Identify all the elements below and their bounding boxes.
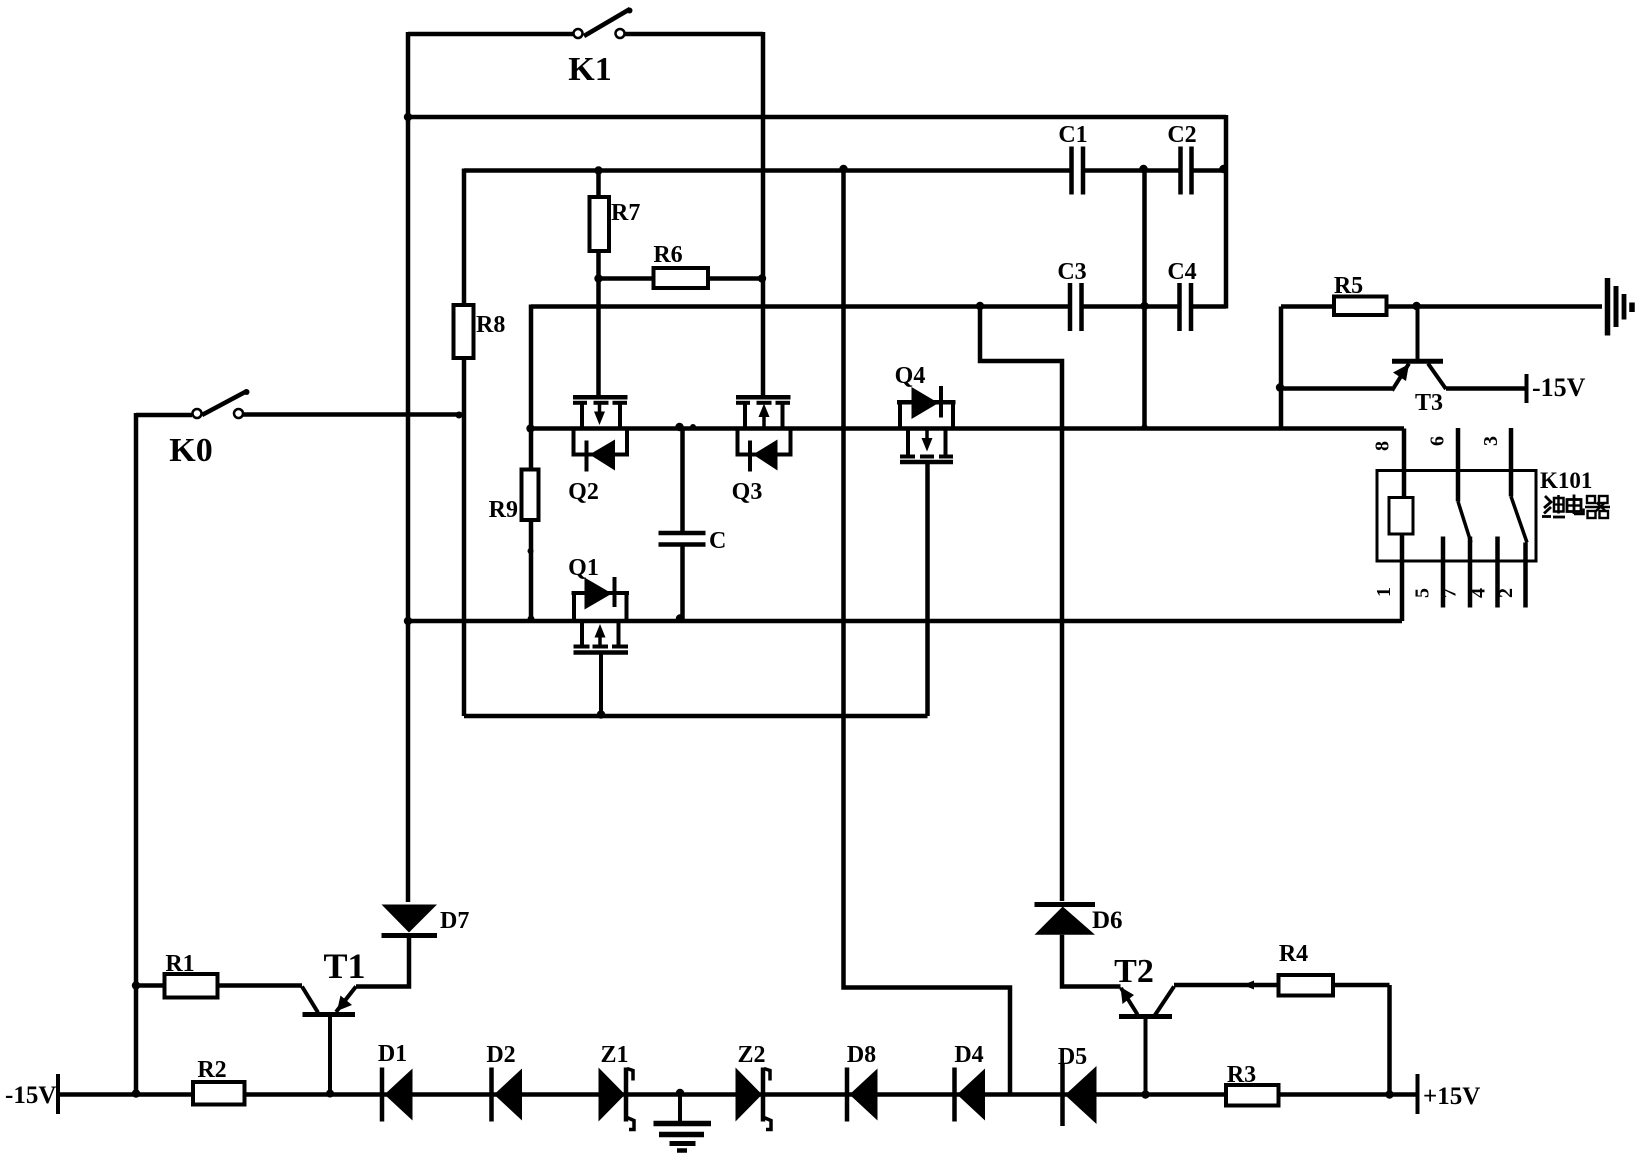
diode D1 <box>382 1068 413 1122</box>
label +15V <box>1423 1083 1480 1110</box>
capacitor C1 <box>1072 147 1084 195</box>
resistor R8 <box>454 169 474 717</box>
node y306 tap junction <box>976 302 984 310</box>
svg-text:5: 5 <box>1412 588 1434 598</box>
resistor R3 <box>1226 1085 1279 1106</box>
svg-text:C1: C1 <box>1058 122 1087 148</box>
transistor T3 <box>1392 304 1446 391</box>
wire bottom of inner box y716 <box>464 714 928 719</box>
svg-text:C: C <box>709 528 726 554</box>
svg-text:1: 1 <box>1373 587 1395 597</box>
switch K1 <box>408 8 763 39</box>
label K101 <box>1540 468 1592 493</box>
svg-text:D2: D2 <box>486 1042 515 1068</box>
label Q2 <box>568 479 599 505</box>
transistor T1 <box>302 987 356 1095</box>
label pin 2 <box>1495 588 1517 598</box>
capacitor C3 <box>1070 283 1082 331</box>
diode D7 <box>382 905 438 936</box>
node R6 right junction <box>758 274 766 282</box>
node T3 emitter junction <box>1276 383 1284 391</box>
svg-text:D1: D1 <box>378 1041 407 1067</box>
label Q4 <box>895 363 926 389</box>
ground right <box>1608 278 1633 336</box>
svg-text:C3: C3 <box>1057 259 1086 285</box>
label -15V left <box>5 1082 56 1109</box>
svg-text:4: 4 <box>1468 588 1490 598</box>
wire left vertical x136 <box>134 413 139 1095</box>
diode D8 <box>847 1068 878 1122</box>
wire horizontal y117 <box>408 115 1226 120</box>
resistor R7 <box>590 171 610 279</box>
svg-text:T1: T1 <box>323 946 365 986</box>
svg-text:Q3: Q3 <box>732 479 763 505</box>
label Q1 <box>568 555 599 581</box>
svg-text:C4: C4 <box>1167 259 1196 285</box>
node x1144 at bus <box>1142 424 1148 430</box>
diode D4 <box>955 1068 986 1122</box>
diode D2 <box>492 1068 523 1122</box>
svg-text:Z1: Z1 <box>600 1042 628 1068</box>
resistor R5 <box>1281 297 1602 316</box>
wire bus to relay pin 8 <box>1402 429 1407 501</box>
label pin 7 <box>1439 588 1461 598</box>
svg-text:K1: K1 <box>568 51 611 88</box>
node Q1 gate at y716 <box>597 710 605 718</box>
svg-text:-15V: -15V <box>5 1082 56 1109</box>
wire horizontal y170 left segment <box>464 168 1072 173</box>
relay pin 1 <box>1400 534 1405 621</box>
wire T3 emitter to x1281 <box>1281 386 1392 391</box>
label D1 <box>378 1041 407 1067</box>
label Z2 <box>737 1042 765 1068</box>
node R9 at lower bus <box>528 616 535 623</box>
label R6 <box>653 242 682 268</box>
label C <box>709 528 726 554</box>
svg-text:6: 6 <box>1427 436 1449 446</box>
label R1 <box>165 951 194 977</box>
mosfet Q2 <box>572 397 630 471</box>
label D4 <box>954 1042 983 1068</box>
node R4 at bus <box>1385 1090 1393 1098</box>
wire from y306 down to D6 branch <box>980 306 1062 901</box>
resistor R2 <box>193 1082 245 1105</box>
capacitor C2 <box>1181 147 1192 195</box>
label D2 <box>486 1042 515 1068</box>
wire D6 to T2 base <box>1062 935 1121 987</box>
node stray on R9 lead <box>528 548 534 554</box>
label T2 <box>1114 953 1154 990</box>
node y306 mid junction <box>1140 302 1148 310</box>
node K0 wire end junction <box>456 412 463 419</box>
svg-text:Q4: Q4 <box>895 363 926 389</box>
label pin 8 <box>1372 441 1394 451</box>
svg-text:R2: R2 <box>197 1057 226 1083</box>
svg-text:Z2: Z2 <box>737 1042 765 1068</box>
label -15V right <box>1532 373 1586 402</box>
label Z1 <box>600 1042 628 1068</box>
label C3 <box>1057 259 1086 285</box>
label relay chinese text <box>1542 495 1610 519</box>
svg-text:D4: D4 <box>954 1042 983 1068</box>
label R8 <box>476 312 505 338</box>
switch K0 <box>136 389 464 418</box>
wire vertical x1144 between wires <box>1142 169 1147 430</box>
mosfet Q1 <box>572 577 630 716</box>
label R2 <box>197 1057 226 1083</box>
svg-text:D8: D8 <box>847 1042 876 1068</box>
svg-text:D7: D7 <box>440 908 469 934</box>
node right end of y170 wire <box>1219 165 1227 173</box>
svg-text:D5: D5 <box>1058 1044 1087 1070</box>
label T3 <box>1415 390 1443 416</box>
wire R6 node down to Q2 gate <box>596 279 601 398</box>
svg-text:T2: T2 <box>1114 953 1154 990</box>
svg-text:R9: R9 <box>489 497 518 523</box>
zener Z2 <box>736 1068 772 1130</box>
node T2 collector at bus <box>1141 1090 1149 1098</box>
wire between C1 and C2 <box>1083 168 1181 173</box>
wire T2 to R4 <box>1174 983 1279 988</box>
label pin 6 <box>1427 436 1449 446</box>
svg-text:R8: R8 <box>476 312 505 338</box>
svg-text:R3: R3 <box>1227 1062 1256 1088</box>
terminal -15V right <box>1525 374 1529 403</box>
svg-text:-15V: -15V <box>1532 373 1586 402</box>
svg-text:D6: D6 <box>1092 907 1123 934</box>
zener Z1 <box>599 1068 635 1130</box>
label T1 <box>323 946 365 986</box>
svg-text:R6: R6 <box>653 242 682 268</box>
label R4 <box>1279 941 1308 967</box>
node C bottom junction <box>676 614 684 622</box>
node T3 collector junction <box>1412 302 1420 310</box>
relay box K101 <box>1377 471 1536 562</box>
ground bottom <box>654 1089 712 1151</box>
wire K1 right vertical to Q3 gate <box>761 32 766 397</box>
label pin 5 <box>1412 588 1434 598</box>
diode D5 <box>1063 1064 1097 1126</box>
resistor R9 <box>522 470 539 622</box>
svg-text:8: 8 <box>1372 441 1394 451</box>
resistor R4 <box>1279 975 1390 1095</box>
wire K1 left vertical <box>406 32 411 902</box>
node x531 at bus <box>526 424 534 432</box>
relay pin 6 <box>1458 428 1471 543</box>
label D7 <box>440 908 469 934</box>
terminal +15V <box>1416 1074 1420 1114</box>
svg-text:K101: K101 <box>1540 468 1592 493</box>
label C2 <box>1167 122 1196 148</box>
label C1 <box>1058 122 1087 148</box>
wire x845 long branch <box>844 169 1011 1095</box>
wire horizontal y306 left segment <box>531 304 1070 309</box>
node capacitor C top junction a <box>675 423 683 431</box>
svg-text:C2: C2 <box>1167 122 1196 148</box>
wire lower bus y621 <box>408 619 1402 624</box>
node T1 collector at bus <box>326 1090 334 1098</box>
node top-left junction <box>404 113 412 121</box>
transistor T2 <box>1119 987 1174 1096</box>
mosfet Q3 <box>736 397 793 471</box>
wire Q4 gate down and over to Q1 gate <box>925 462 930 716</box>
wire right vertical x1226 <box>1224 115 1229 309</box>
node y170 tap junction <box>839 165 847 173</box>
label C4 <box>1167 259 1196 285</box>
node R7-R6 junction <box>594 274 602 282</box>
node x136 at bottom bus <box>132 1089 140 1097</box>
label R3 <box>1227 1062 1256 1088</box>
svg-text:7: 7 <box>1439 588 1461 598</box>
diode D6 <box>1035 905 1096 935</box>
wire T1 emitter to D7 <box>356 938 409 987</box>
wire x531 from y306 to R9 <box>529 305 534 470</box>
label D6 <box>1092 907 1123 934</box>
relay coil <box>1389 498 1413 535</box>
svg-text:Q1: Q1 <box>568 555 599 581</box>
capacitor C <box>659 429 706 622</box>
relay pin 2 <box>1523 543 1528 608</box>
label D5 <box>1058 1044 1087 1070</box>
wire between C3 and C4 <box>1082 304 1180 309</box>
wire after C4 <box>1191 304 1226 309</box>
svg-text:Q2: Q2 <box>568 479 599 505</box>
relay pin 7 <box>1468 537 1473 608</box>
svg-text:R7: R7 <box>611 200 640 226</box>
arrow on T2-R4 wire <box>1243 981 1254 990</box>
label pin 1 <box>1373 587 1395 597</box>
node R7 top junction <box>594 166 602 174</box>
wire bottom bus <box>58 1092 1418 1097</box>
label D8 <box>847 1042 876 1068</box>
resistor R6 <box>599 268 764 288</box>
svg-text:R5: R5 <box>1334 273 1363 299</box>
svg-text:T3: T3 <box>1415 390 1443 416</box>
svg-text:3: 3 <box>1480 436 1502 446</box>
label K1 <box>568 51 611 88</box>
relay pin 5 <box>1441 537 1446 608</box>
relay pin 3 <box>1511 428 1527 543</box>
label K0 <box>169 432 212 469</box>
label R7 <box>611 200 640 226</box>
label Q3 <box>732 479 763 505</box>
svg-text:K0: K0 <box>169 432 212 469</box>
wire main bus y428 <box>531 426 1405 431</box>
wire x1281 vertical <box>1279 307 1284 431</box>
svg-text:2: 2 <box>1495 588 1517 598</box>
node bus621 left junction <box>404 617 412 625</box>
node C1-C2 junction <box>1139 165 1147 173</box>
label R9 <box>489 497 518 523</box>
terminal -15V left <box>56 1074 60 1114</box>
relay pin 4 <box>1495 537 1500 608</box>
wire T3 right to -15V <box>1446 386 1525 391</box>
wire after C2 <box>1192 168 1227 173</box>
svg-text:+15V: +15V <box>1423 1083 1480 1110</box>
resistor R1 <box>136 974 302 998</box>
node capacitor C top junction b <box>690 424 696 430</box>
mosfet Q4 <box>897 386 956 462</box>
capacitor C4 <box>1180 283 1192 331</box>
label R5 <box>1334 273 1363 299</box>
node R1 tap <box>132 981 140 989</box>
svg-text:R1: R1 <box>165 951 194 977</box>
svg-text:R4: R4 <box>1279 941 1308 967</box>
label pin 4 <box>1468 588 1490 598</box>
label pin 3 <box>1480 436 1502 446</box>
